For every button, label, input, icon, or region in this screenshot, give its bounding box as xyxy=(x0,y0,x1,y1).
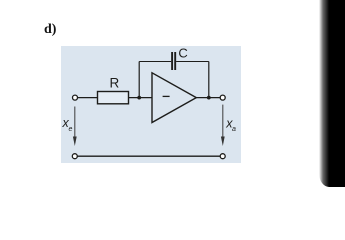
svg-text:C: C xyxy=(178,45,187,60)
svg-text:a: a xyxy=(232,126,236,133)
svg-text:e: e xyxy=(69,126,73,133)
svg-text:R: R xyxy=(110,76,120,91)
